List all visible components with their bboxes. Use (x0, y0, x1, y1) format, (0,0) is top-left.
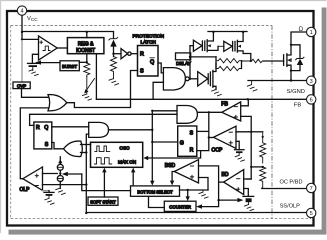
resistor R3 gate (216, 59, 241, 63)
svg-text:VCC: VCC (27, 16, 38, 22)
op-amp U13 OCP comparator (214, 126, 237, 148)
svg-text:FB: FB (294, 103, 302, 109)
wire tap2 link (251, 166, 263, 168)
resistor R2 Vcc divider (111, 57, 117, 74)
diode D4 driver 1 (190, 45, 193, 47)
block OSC (91, 142, 143, 167)
wire latch S input (197, 130, 209, 132)
OR gate U14 set (64, 141, 83, 156)
node drain (290, 44, 292, 46)
wire BD minus input (244, 178, 252, 180)
wire AND output (109, 129, 153, 131)
diode D3 gate driver (189, 78, 198, 80)
svg-text:SOFT START: SOFT START (90, 199, 116, 204)
svg-text:5: 5 (310, 211, 313, 217)
svg-text:D: D (299, 27, 304, 33)
current source I1 (59, 157, 61, 165)
zener diode D1 Vcc clamp (113, 32, 115, 38)
wire to counter with arrow (200, 200, 219, 207)
NAND gate U4 drive (163, 68, 185, 90)
wire divider vertical (247, 132, 251, 179)
wire S/GND rail (248, 80, 306, 82)
wire tap1 to resistor (251, 131, 263, 133)
wire Vcc grey drop to OVP (21, 39, 23, 82)
latch U12 S-G-R (178, 126, 197, 156)
pin 6 FB (307, 95, 316, 104)
wire set gate output to latch S (52, 143, 64, 149)
svg-text:COUNTER: COUNTER (169, 205, 191, 210)
ground (235, 153, 244, 161)
svg-text:MAX ON: MAX ON (118, 159, 136, 164)
block SOFT START (88, 197, 118, 205)
node rail drain 2 (242, 31, 244, 33)
resistor R4 gate (216, 66, 241, 70)
wire Vcc stem from pin 4 (21, 15, 23, 39)
svg-text:FB: FB (221, 101, 228, 107)
block DELAY (176, 53, 191, 60)
op-amp U8 FB comparator (222, 102, 241, 121)
op-amp U17 BD comparator (224, 170, 244, 195)
svg-text:LATCH: LATCH (141, 40, 157, 46)
block REG & ICONST (67, 38, 104, 54)
wire R loop to OSC sync (148, 151, 201, 158)
svg-text:OCP: OCP (212, 147, 224, 153)
node REG rail junction (86, 31, 88, 33)
inverter U2 to protection latch R (114, 53, 122, 55)
node source (290, 69, 292, 71)
wire OLP signal up to OR gate (20, 108, 48, 179)
wire OVP to OR gate (22, 89, 49, 98)
current source arrow diagonal (86, 79, 95, 92)
wire OLP plus input (43, 173, 58, 175)
resistor R5 gate series (242, 59, 264, 63)
capacitor C2 OCP ref (235, 149, 245, 151)
IC/power divider dash-dot (271, 26, 273, 219)
capacitor C4 soft start (243, 195, 254, 197)
ground (56, 188, 66, 194)
svg-text:OC P/BD: OC P/BD (279, 180, 302, 186)
wire bottom select to counter (149, 197, 165, 208)
node resistor top (262, 136, 264, 138)
ground (29, 67, 38, 76)
wire bottom select to OSC with arrow (132, 171, 134, 186)
OR gate U3 protection (48, 95, 67, 111)
svg-text:S: S (45, 142, 49, 148)
wire to UVLO comparator input (22, 38, 39, 40)
op-amp U15 OLP comparator (23, 167, 43, 190)
wire ss feedback to set gate (81, 152, 87, 154)
wire logic column (151, 111, 153, 182)
block BURST (60, 61, 79, 71)
wire FB line from pin 6 (96, 98, 306, 100)
node resistor junction (262, 166, 264, 168)
wire comparator lower input (32, 54, 38, 63)
svg-text:ICONST: ICONST (76, 48, 95, 54)
svg-text:BSD: BSD (165, 163, 176, 169)
node SS control (217, 199, 219, 201)
transistor Q4 power MOSFET (283, 55, 285, 66)
svg-text:S/GND: S/GND (287, 89, 305, 95)
node CS junction (59, 170, 61, 175)
wire BSD output arrow to bottom select (172, 172, 174, 182)
node S/GND (290, 79, 292, 81)
wire FB comp minus input (241, 99, 249, 106)
capacitor C1 burst reference (28, 62, 39, 64)
wire BD plus input (244, 189, 249, 197)
resistor R6 FB divider upper (260, 132, 266, 163)
node delay input (189, 56, 191, 58)
node comparator feed junction (21, 38, 23, 40)
transistor Q2 driver MOSFET 1 (204, 41, 206, 50)
wire FB comp plus input to divider (241, 116, 252, 131)
wire main latch R input (30, 114, 177, 125)
frame shadow right (322, 8, 327, 235)
node gate line (250, 60, 252, 62)
svg-text:OLP: OLP (20, 187, 31, 193)
IC boundary dashed top (11, 25, 272, 27)
wire arrow into counter top (187, 190, 189, 198)
svg-text:7: 7 (310, 186, 313, 192)
ground (199, 190, 208, 198)
svg-text:OVP: OVP (17, 83, 26, 88)
pin 5 SS/OLP (307, 208, 316, 217)
svg-text:BOTTOM SELECT: BOTTOM SELECT (137, 190, 173, 195)
wire bottom select right to BSD (180, 189, 209, 191)
pin 1 D (307, 27, 316, 36)
node Vcc rail junction (21, 31, 23, 33)
wire driver node to gate resistors (190, 56, 216, 58)
IC boundary dashed left (10, 26, 12, 219)
svg-text:REG &: REG & (78, 42, 94, 48)
pin 3 S/GND (307, 76, 316, 85)
svg-text:BURST: BURST (62, 64, 77, 69)
wire OCP plus to reference cap (236, 141, 239, 149)
op-amp U16 BSD comparator (174, 160, 198, 183)
wire gate to power MOSFET (263, 60, 283, 62)
wire source to S/GND rail (290, 71, 292, 81)
node divider tap 2 (250, 166, 252, 168)
wire BD output join (219, 181, 224, 183)
capacitor C3 OLP (44, 191, 54, 193)
svg-text:G: G (180, 141, 184, 147)
node burst resistor junction (86, 61, 88, 63)
block COUNTER (164, 201, 196, 211)
wire to pin OC P/BD (262, 188, 307, 190)
svg-text:R: R (36, 125, 40, 131)
svg-text:Q: Q (150, 60, 154, 66)
wire BURST output with arrow to cap node (40, 62, 60, 64)
wire arrow into CS node (66, 173, 82, 175)
svg-text:4: 4 (20, 9, 23, 15)
wire arrow to SS capacitor (219, 199, 240, 201)
node rail drain 1 (212, 31, 214, 33)
wire driver node vertical (189, 46, 191, 79)
svg-text:1: 1 (310, 30, 313, 36)
resistor R1 burst (84, 63, 90, 77)
svg-text:R: R (140, 52, 144, 58)
ground (82, 77, 91, 101)
wire OSC to set gate (81, 144, 91, 146)
wire OCP minus input (236, 131, 251, 133)
pin 7 OC P/BD (307, 183, 316, 192)
svg-text:3: 3 (310, 79, 313, 85)
wire comparator output to REG (57, 47, 67, 49)
latch U9 main R-Q-S (34, 122, 52, 149)
diode D5 driver 2 (218, 45, 224, 47)
ground (109, 74, 119, 85)
wire to gate G2 input (152, 110, 177, 112)
current source I2 (57, 176, 63, 182)
transistor Q3 driver MOSFET 2 (234, 42, 236, 51)
IC boundary dashed bottom (11, 218, 311, 220)
svg-text:PROTECTION: PROTECTION (132, 33, 164, 39)
wire NAND feedback input from FB line (153, 82, 163, 99)
AND gate U10 drive enable (89, 122, 109, 137)
wire main latch Q to AND (52, 126, 89, 128)
svg-text:R: R (190, 148, 194, 154)
wire to bottom select left (82, 174, 131, 191)
wire protection latch Qbar to NAND (158, 63, 163, 73)
node NAND out (189, 78, 191, 80)
svg-text:Q: Q (44, 125, 48, 131)
wire U11 out to FB comp and latch S (197, 111, 221, 113)
AND gate U11 pwm (177, 106, 197, 124)
block BOTTOM SELECT (131, 186, 180, 196)
node AND out column top (151, 110, 153, 112)
wire OLP minus input (43, 184, 87, 186)
wire soft start to OSC with arrow (103, 171, 105, 197)
wire BURST right to resistor node (79, 61, 87, 63)
wire driver rail (208, 31, 247, 33)
wire REG bottom rail (95, 54, 97, 99)
svg-text:S: S (190, 130, 194, 136)
transistor Q1 pull-down MOSFET (209, 72, 211, 86)
svg-text:OSC: OSC (120, 146, 131, 151)
node zener-resistor junction (112, 53, 114, 55)
wire OR out to protection latch S (67, 71, 138, 108)
svg-text:6: 6 (310, 98, 313, 104)
op-amp U1 UVLO comparator (39, 36, 58, 60)
ground (212, 90, 222, 96)
wire BSD plus input (199, 178, 209, 191)
wire REG bottom to burst resistor (86, 54, 88, 63)
svg-text:BD: BD (222, 172, 229, 178)
wire BSD minus input (199, 166, 219, 200)
wire resistor right node (241, 61, 243, 69)
wire rail to REG top (86, 32, 88, 38)
wire S column (197, 112, 209, 150)
wire Vcc top rail (22, 31, 114, 33)
wire to latch G input (152, 141, 177, 143)
wire OCP output join (209, 137, 213, 139)
resistor R7 FB divider lower (260, 167, 266, 188)
node AND out (151, 129, 153, 131)
wire SS/OLP line (86, 212, 306, 214)
wire AND lower input column (86, 134, 88, 213)
svg-text:S: S (140, 69, 144, 75)
svg-text:DELAY: DELAY (176, 61, 191, 66)
pin 4 Vcc (17, 6, 26, 15)
wire drain from pin D (291, 32, 306, 45)
zener diode D2 drain clamp (291, 45, 300, 58)
block OVP (13, 82, 30, 89)
ground (247, 81, 257, 92)
node FB divider top (247, 98, 249, 100)
wire resistor left node (215, 57, 217, 69)
svg-text:SS/OLP: SS/OLP (280, 203, 300, 209)
frame shadow bottom (9, 230, 327, 235)
node divider tap 1 (250, 131, 252, 133)
